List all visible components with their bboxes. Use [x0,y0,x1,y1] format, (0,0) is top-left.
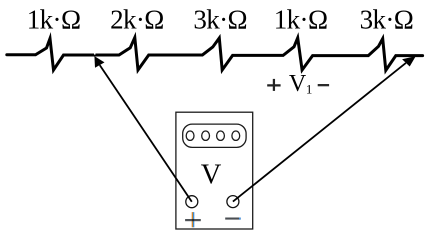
svg-text:3k·Ω: 3k·Ω [360,4,414,34]
svg-text:V: V [201,160,222,191]
svg-text:3k·Ω: 3k·Ω [193,4,247,34]
svg-text:2k·Ω: 2k·Ω [110,4,164,34]
svg-text:1: 1 [306,82,313,97]
svg-text:1k·Ω: 1k·Ω [27,4,81,34]
svg-text:V: V [289,71,307,97]
svg-text:1k·Ω: 1k·Ω [274,4,328,34]
